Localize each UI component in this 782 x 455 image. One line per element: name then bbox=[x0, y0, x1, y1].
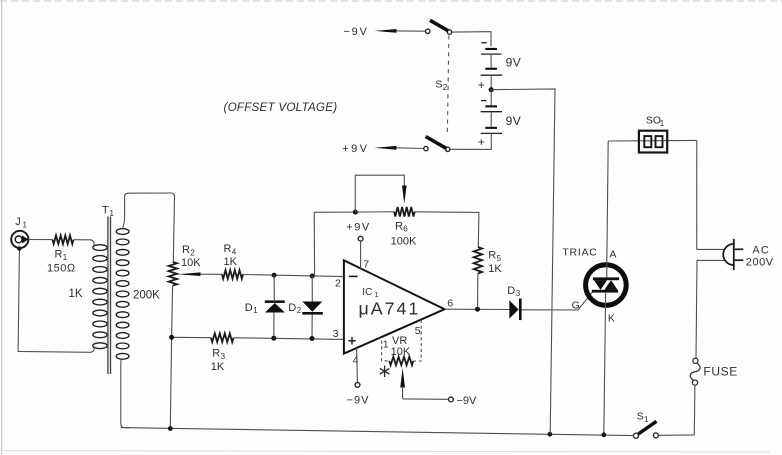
svg-text:5: 5 bbox=[415, 325, 421, 337]
svg-text:3: 3 bbox=[516, 289, 521, 298]
wire R5 bottom to output node bbox=[477, 274, 479, 310]
op-amp IC1 uA741 bbox=[333, 259, 454, 367]
jack J1 bbox=[11, 216, 28, 251]
svg-text:3: 3 bbox=[333, 328, 339, 340]
node feedback/bracket bbox=[353, 210, 358, 215]
svg-text:−9V: −9V bbox=[457, 395, 478, 407]
socket SO1 bbox=[608, 115, 697, 153]
wire pin3 line bbox=[172, 336, 211, 338]
svg-text:R: R bbox=[182, 244, 190, 256]
svg-text:3: 3 bbox=[221, 352, 226, 361]
wire triac cathode down to bottom bus bbox=[604, 305, 606, 435]
feedback wire through R6 bbox=[314, 211, 394, 214]
svg-text:D: D bbox=[288, 302, 296, 314]
svg-text:R: R bbox=[55, 249, 63, 261]
svg-text:R: R bbox=[212, 348, 220, 360]
svg-text:100K: 100K bbox=[391, 236, 417, 248]
svg-text:1: 1 bbox=[253, 306, 258, 315]
diode D1 bbox=[245, 275, 285, 338]
svg-text:+: + bbox=[478, 135, 485, 149]
diode D2 bbox=[288, 276, 323, 339]
svg-text:200V: 200V bbox=[746, 256, 774, 268]
transformer T1 primary winding 1K bbox=[93, 245, 107, 349]
wire D3 to triac gate bbox=[522, 292, 593, 310]
svg-text:TRIAC: TRIAC bbox=[562, 246, 597, 258]
transformer T1 secondary winding 200K bbox=[116, 229, 129, 360]
svg-text:+: + bbox=[478, 78, 485, 92]
svg-text:1: 1 bbox=[660, 119, 665, 128]
svg-text:6: 6 bbox=[403, 225, 408, 234]
svg-text:5: 5 bbox=[497, 254, 502, 263]
wire triac anode up to SO1 bbox=[607, 141, 608, 266]
svg-text:10K: 10K bbox=[181, 257, 201, 269]
svg-text:6: 6 bbox=[447, 298, 453, 310]
node output/R5 bbox=[475, 307, 480, 312]
node bus/triac bbox=[601, 432, 606, 437]
svg-text:1K: 1K bbox=[69, 288, 83, 300]
svg-text:1: 1 bbox=[644, 415, 649, 424]
node pin3/D2 bbox=[310, 336, 315, 341]
svg-text:1: 1 bbox=[63, 253, 68, 262]
svg-text:−9V: −9V bbox=[347, 395, 370, 407]
node bus/R2 line bbox=[168, 426, 173, 431]
wire R6 right end down through R5 bbox=[477, 212, 480, 247]
svg-text:1K: 1K bbox=[224, 256, 238, 268]
svg-text:2: 2 bbox=[335, 278, 341, 290]
svg-text:7: 7 bbox=[363, 259, 369, 271]
wire secondary bottom to bottom bus bbox=[121, 359, 130, 428]
svg-text:1K: 1K bbox=[488, 263, 502, 275]
switch S2 pole b bbox=[424, 137, 450, 152]
wire battery bottom to S2 pole b bbox=[450, 148, 491, 150]
potentiometer R6 100K bbox=[355, 175, 417, 247]
svg-text:VR: VR bbox=[392, 335, 407, 347]
svg-text:9V: 9V bbox=[506, 114, 522, 128]
AC plug 200V bbox=[697, 140, 774, 270]
wire AC plug down to fuse bbox=[696, 260, 697, 358]
node bus/battery tap bbox=[548, 432, 553, 437]
svg-text:K: K bbox=[608, 312, 615, 324]
diode D3 bbox=[507, 285, 521, 320]
svg-text:T: T bbox=[102, 205, 109, 217]
node pin2/D2 bbox=[310, 274, 315, 279]
-9V arrow terminal bbox=[344, 26, 426, 38]
svg-text:J: J bbox=[15, 216, 21, 228]
svg-text:SO: SO bbox=[646, 115, 661, 127]
wire R2 bottom to pin3 line bbox=[172, 286, 173, 338]
svg-text:1: 1 bbox=[23, 221, 28, 230]
svg-text:+9V: +9V bbox=[342, 143, 369, 155]
svg-text:D: D bbox=[507, 285, 515, 297]
svg-text:1K: 1K bbox=[211, 361, 225, 373]
svg-text:R: R bbox=[395, 221, 403, 233]
switch S2 pole a bbox=[426, 20, 452, 34]
node pin3/R2 bbox=[169, 335, 174, 340]
svg-text:G: G bbox=[572, 299, 580, 311]
svg-text:−9V: −9V bbox=[344, 26, 369, 38]
wire S2 pole a to battery top bbox=[452, 32, 491, 47]
resistor R1 150 ohm bbox=[47, 235, 76, 274]
node pin2/D1 bbox=[272, 273, 277, 278]
-9V terminal pin 4 bbox=[347, 348, 370, 407]
resistor R4 1K bbox=[222, 243, 243, 279]
bottom bus wire bbox=[121, 428, 634, 436]
resistor R3 1K bbox=[211, 333, 234, 373]
svg-text:9V: 9V bbox=[506, 55, 522, 69]
-9V terminal VR wiper bbox=[403, 395, 477, 407]
svg-text:μA741: μA741 bbox=[359, 299, 421, 319]
svg-text:(OFFSET VOLTAGE): (OFFSET VOLTAGE) bbox=[224, 101, 338, 114]
svg-text:D: D bbox=[245, 302, 253, 314]
wire op-amp pin6 output bbox=[445, 308, 510, 310]
wire R4 to op-amp pin 2 bbox=[243, 275, 344, 277]
asterisk reference mark bbox=[380, 366, 390, 378]
svg-text:200K: 200K bbox=[133, 290, 160, 302]
svg-text:S: S bbox=[435, 79, 442, 91]
potentiometer VR 10K (offset null) bbox=[382, 320, 422, 399]
fuse bbox=[690, 358, 738, 385]
svg-text:IC: IC bbox=[362, 287, 372, 298]
svg-text:R: R bbox=[224, 243, 232, 255]
svg-text:AC: AC bbox=[752, 244, 770, 256]
svg-text:R: R bbox=[488, 250, 496, 262]
+9V terminal pin 7 bbox=[346, 222, 370, 269]
svg-text:A: A bbox=[609, 249, 616, 261]
wire J1 sleeve to T1 primary bottom bbox=[18, 251, 94, 352]
node pin3/D1 bbox=[271, 336, 276, 341]
svg-text:2: 2 bbox=[297, 306, 302, 315]
svg-text:1: 1 bbox=[383, 339, 389, 351]
wire fuse down to S1 bbox=[658, 385, 695, 435]
wire secondary top to R2 line bbox=[122, 193, 175, 262]
wire J1 tip to R1 bbox=[28, 239, 52, 241]
node battery center tap bbox=[489, 87, 494, 92]
wire R1 to T1 primary top bbox=[74, 240, 95, 246]
wire pin2 node up to feedback line bbox=[313, 212, 315, 276]
svg-text:10K: 10K bbox=[391, 346, 411, 358]
svg-text:S: S bbox=[637, 410, 644, 422]
triac bbox=[562, 246, 626, 324]
svg-text:150Ω: 150Ω bbox=[47, 263, 76, 275]
svg-text:1: 1 bbox=[110, 209, 115, 218]
potentiometer R2 10K bbox=[169, 244, 222, 286]
svg-text:2: 2 bbox=[443, 83, 448, 92]
+9V arrow terminal bbox=[342, 143, 423, 155]
svg-text:FUSE: FUSE bbox=[703, 365, 737, 379]
transformer T1 core bbox=[107, 217, 109, 375]
battery B1 9V bbox=[478, 43, 521, 92]
switch S2 gang dashed link and label bbox=[447, 36, 449, 136]
svg-text:4: 4 bbox=[353, 355, 359, 367]
switch S1 bbox=[634, 410, 659, 438]
transformer T1 labels bbox=[69, 205, 161, 302]
wire R2 line down to bottom bus bbox=[170, 337, 171, 428]
svg-text:+9V: +9V bbox=[346, 222, 370, 234]
battery B2 9V bbox=[478, 90, 521, 150]
wire battery tap to right and down to bottom bus bbox=[491, 89, 555, 434]
resistor R5 1K bbox=[474, 247, 503, 275]
